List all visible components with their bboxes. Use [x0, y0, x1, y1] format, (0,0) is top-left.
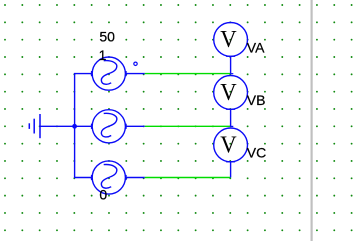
- ground: [29, 114, 40, 138]
- terminal marker ring: [134, 62, 137, 65]
- wire VB bottom: [230, 109, 232, 126]
- svg-text:50: 50: [99, 28, 115, 44]
- pin stub source3 right: [126, 177, 145, 179]
- svg-text:V: V: [220, 26, 237, 53]
- wire green phase B: [145, 125, 231, 127]
- wire bus to source 2: [75, 125, 92, 127]
- svg-text:0: 0: [99, 186, 107, 202]
- wire green phase C: [145, 177, 231, 179]
- pin tick VB top: [230, 73, 233, 75]
- junction: [72, 124, 77, 129]
- voltmeter VC: [214, 128, 248, 162]
- pin stub source2 right: [126, 125, 145, 127]
- pin stub source1 right: [126, 73, 145, 75]
- svg-text:VB: VB: [247, 92, 266, 108]
- svg-text:VA: VA: [247, 39, 265, 55]
- svg-text:V: V: [220, 132, 237, 159]
- wire VA bottom: [230, 56, 232, 73]
- svg-text:VC: VC: [247, 145, 266, 161]
- voltmeter VA: [214, 23, 248, 57]
- wire VC bottom: [230, 162, 232, 178]
- ac source V2: [92, 110, 127, 143]
- wire ground to bus: [40, 125, 75, 127]
- svg-text:1: 1: [99, 47, 107, 63]
- wire green phase A: [145, 73, 231, 75]
- pin tick VC top: [230, 125, 233, 127]
- svg-text:V: V: [220, 79, 237, 106]
- ac source V1: [92, 57, 127, 90]
- wire left bus: [75, 74, 92, 178]
- ac source V3: [92, 161, 127, 194]
- voltmeter VB: [214, 76, 248, 110]
